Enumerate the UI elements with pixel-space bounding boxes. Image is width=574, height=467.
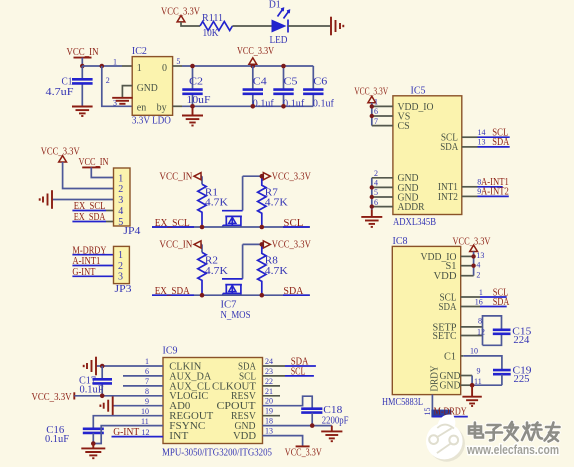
- wire IC5 ground pins: [371, 178, 373, 210]
- svg-text:GND: GND: [137, 83, 158, 94]
- svg-text:VCC_3.3V: VCC_3.3V: [453, 236, 492, 247]
- wire D1 cathode to ground: [288, 25, 330, 27]
- svg-text:4.7K: 4.7K: [265, 198, 289, 209]
- svg-text:1: 1: [118, 250, 123, 261]
- svg-text:225: 225: [514, 374, 530, 385]
- capacitor C15: [493, 330, 511, 334]
- wire G-INT to pin 12: [112, 436, 164, 438]
- node C18 / GND: [310, 423, 315, 428]
- IC9 pin 6 wire (AUX_DA): [123, 375, 163, 377]
- IC9 pin 13 wire (VDD): [263, 436, 303, 446]
- svg-text:SDA: SDA: [492, 137, 510, 148]
- svg-text:MPU-3050/ITG3200/ITG3205: MPU-3050/ITG3200/ITG3205: [162, 448, 272, 459]
- svg-text:23: 23: [265, 367, 273, 376]
- wire from VCC_3.3V to R111: [181, 22, 200, 26]
- svg-text:2: 2: [106, 76, 110, 85]
- svg-text:4.7uF: 4.7uF: [46, 87, 75, 98]
- svg-text:en: en: [137, 103, 146, 114]
- svg-text:0.1uF: 0.1uF: [80, 384, 104, 395]
- IC9 pin 18 wire (GND): [263, 425, 332, 427]
- svg-text:4.7K: 4.7K: [265, 266, 289, 277]
- svg-text:SCL: SCL: [283, 218, 303, 229]
- svg-text:1: 1: [479, 288, 483, 297]
- svg-text:DRDY: DRDY: [430, 366, 441, 392]
- svg-text:JP4: JP4: [123, 226, 140, 237]
- svg-text:LED: LED: [270, 35, 288, 46]
- svg-text:1: 1: [118, 173, 123, 184]
- svg-text:9: 9: [477, 367, 481, 376]
- svg-text:D1: D1: [269, 0, 281, 10]
- node C5 bottom: [281, 104, 286, 109]
- svg-text:HMC5883L: HMC5883L: [382, 397, 423, 408]
- svg-text:1: 1: [145, 357, 149, 366]
- svg-text:2: 2: [118, 184, 123, 195]
- svg-text:6: 6: [145, 367, 149, 376]
- IC8 pin 1 wire (SCL): [461, 296, 480, 298]
- ground (IC5): [361, 210, 382, 227]
- node ADDR: [370, 204, 374, 208]
- ground (LED, sideways right): [331, 17, 343, 36]
- svg-text:VDD: VDD: [233, 431, 256, 442]
- svg-text:20: 20: [265, 397, 273, 406]
- svg-text:4.7K: 4.7K: [205, 266, 229, 277]
- svg-text:by: by: [157, 103, 167, 114]
- wire VCC_3.3V to VLOGIC pin 8: [74, 395, 163, 397]
- LED D1: [272, 8, 290, 32]
- watermark logo (elecfans): [426, 414, 465, 461]
- IC8 pin 10 wire (C1): [461, 355, 464, 357]
- IC9 pin 9 wire (AD0): [113, 405, 163, 407]
- IC9 pin 20 wire (CPOUT) to C18: [263, 396, 313, 408]
- svg-text:12: 12: [477, 327, 485, 336]
- IC9 pin 10 wire (REGOUT): [93, 416, 163, 429]
- capacitor C2: [182, 66, 202, 106]
- svg-text:15: 15: [423, 408, 432, 416]
- wire VCC_IN node to IC2 pin 1: [82, 65, 122, 67]
- svg-text:18: 18: [265, 417, 273, 426]
- IC9 pin 7 wire (AUX_CL): [123, 385, 163, 387]
- ground (CLKIN, sideways left): [84, 357, 96, 376]
- svg-text:SDA: SDA: [283, 286, 304, 297]
- svg-text:VCC_3.3V: VCC_3.3V: [41, 146, 81, 157]
- capacitor C19: [493, 370, 511, 374]
- IC9 pin 11 wire (FSYNC): [93, 426, 163, 444]
- wire EX_SDA to JP4 pin 5: [72, 221, 106, 223]
- IC5 pin 9 wire (INT2): [462, 195, 478, 197]
- node VS: [370, 114, 374, 118]
- IC8 pin 12 stub (SETC): [461, 335, 483, 337]
- svg-text:ADDR: ADDR: [398, 202, 425, 213]
- svg-text:C5: C5: [284, 77, 298, 88]
- svg-text:4: 4: [374, 179, 378, 188]
- IC8 pin 15 stub: [431, 395, 433, 417]
- wire EX_SCL to JP4 pin 4: [72, 210, 106, 212]
- node GND pin5: [370, 195, 374, 199]
- IC9 pin 19 stub: [263, 415, 281, 417]
- IC9 pin 23 wire (SCL): [263, 375, 286, 377]
- IC5 pin 6 stub (VS): [372, 115, 393, 117]
- svg-text:0.1uF: 0.1uF: [45, 434, 69, 445]
- capacitor C6: [303, 66, 323, 106]
- IC8 pin 4 stub (S1): [461, 265, 474, 267]
- node CLKIN / C17: [100, 364, 105, 369]
- svg-text:13: 13: [476, 251, 484, 260]
- power flag VCC_3.3V (IC9 VDD): [296, 445, 310, 447]
- svg-text:2: 2: [476, 271, 480, 280]
- svg-text:1: 1: [113, 58, 117, 67]
- IC2 pin 5 stub: [173, 65, 182, 67]
- level shifter SCL: R1, R7, NMOS; wires and power flags: [152, 173, 310, 230]
- svg-text:INT2: INT2: [438, 192, 458, 203]
- node VLOGIC / C17 bottom: [100, 394, 105, 399]
- svg-text:0.1uf: 0.1uf: [283, 98, 305, 109]
- svg-text:10uF: 10uF: [187, 95, 212, 106]
- svg-text:VCC_3.3V: VCC_3.3V: [272, 240, 312, 251]
- ground (below C2): [182, 108, 203, 125]
- connector JP3 body: [114, 246, 130, 283]
- IC9 pin 21 stub: [263, 395, 281, 397]
- svg-text:SDA: SDA: [493, 297, 510, 308]
- svg-text:10: 10: [141, 407, 149, 416]
- capacitor C5: [273, 66, 293, 106]
- svg-text:224: 224: [513, 335, 529, 346]
- svg-text:C2: C2: [189, 77, 203, 88]
- accelerometer IC5 (ADXL345B) body: [393, 96, 462, 215]
- svg-text:IC9: IC9: [163, 346, 178, 357]
- op-amp regulator IC2 (3.3V LDO) body: [132, 57, 172, 116]
- svg-text:13: 13: [478, 138, 486, 147]
- level shifter SDA: R2, R8, NMOS IC7; wires and power flags: [152, 241, 310, 298]
- svg-text:4: 4: [118, 206, 123, 217]
- gyroscope IC9 (MPU-3050) body: [163, 358, 263, 444]
- svg-text:2: 2: [374, 169, 378, 178]
- svg-text:11: 11: [141, 417, 149, 426]
- IC9 pin 24 wire (SDA): [263, 365, 286, 367]
- IC8 pin 11 stub: [461, 384, 472, 386]
- wire G-INT to JP3 pin 3: [72, 275, 113, 277]
- svg-text:C1: C1: [444, 351, 456, 362]
- svg-text:VCC_3.3V: VCC_3.3V: [285, 447, 323, 458]
- node GND pin4: [370, 185, 374, 189]
- IC2 pin 2 stub: [122, 86, 132, 98]
- svg-text:12: 12: [142, 428, 150, 437]
- svg-text:VCC_IN: VCC_IN: [67, 47, 99, 58]
- IC8 pin 2 stub (VDD): [461, 275, 474, 277]
- svg-text:R111: R111: [202, 13, 223, 24]
- ground (IC9 pin 18): [321, 426, 342, 442]
- IC5 pin 13 wire (SDA): [462, 146, 478, 148]
- svg-text:0.1uf: 0.1uf: [313, 98, 335, 109]
- svg-text:EX_SCL: EX_SCL: [155, 218, 190, 229]
- svg-text:1: 1: [374, 98, 378, 107]
- svg-text:8: 8: [478, 317, 482, 326]
- IC9 pin 22 stub: [263, 385, 281, 387]
- svg-text:6: 6: [374, 107, 378, 116]
- svg-text:13: 13: [265, 427, 273, 436]
- node VDD_IO IC8: [471, 254, 475, 258]
- wire A-INT1 to JP3 pin 2: [72, 265, 113, 267]
- capacitor C1: [81, 66, 83, 106]
- wire VCC_IN to JP4 pin 1: [91, 167, 113, 177]
- svg-text:CS: CS: [398, 121, 410, 132]
- capacitor C16: [83, 429, 104, 433]
- svg-text:6: 6: [374, 198, 378, 207]
- svg-text:VCC_IN: VCC_IN: [159, 171, 192, 182]
- wire VCC_3.3V to IC5 power pins: [371, 103, 373, 126]
- wire VCC_3.3V to JP4 pin 2: [63, 162, 114, 189]
- wire R111 to D1: [232, 25, 271, 27]
- svg-text:EX_SDA: EX_SDA: [155, 286, 191, 297]
- svg-text:IC8: IC8: [393, 236, 408, 247]
- svg-text:SDA: SDA: [440, 142, 459, 153]
- svg-text:VCC_3.3V: VCC_3.3V: [272, 171, 312, 182]
- IC5 pin 1 stub (VDD_IO): [372, 105, 393, 107]
- capacitor C4: [243, 66, 263, 106]
- ground (IC8): [462, 385, 481, 406]
- svg-text:7: 7: [374, 117, 378, 126]
- IC2 pin by stub: [173, 105, 182, 107]
- svg-text:www.elecfans.com: www.elecfans.com: [466, 442, 559, 457]
- wire C19 bottom to ground: [472, 384, 502, 386]
- node C16 / FSYNC ground: [91, 441, 96, 446]
- svg-text:IC7: IC7: [221, 300, 237, 311]
- svg-text:C6: C6: [313, 77, 327, 88]
- highlight box behind M-DRDY: [431, 410, 451, 418]
- svg-text:10K: 10K: [203, 28, 220, 39]
- svg-text:A-INT2: A-INT2: [481, 187, 509, 198]
- svg-text:0.1uf: 0.1uf: [253, 98, 275, 109]
- node S1: [471, 264, 475, 268]
- IC5 pin 7 stub (CS): [372, 125, 393, 127]
- svg-text:3: 3: [113, 98, 117, 107]
- resistor R111: [200, 22, 232, 31]
- capacitor C17: [101, 366, 103, 396]
- svg-text:3.3V LDO: 3.3V LDO: [132, 115, 171, 126]
- IC5 pin 5 stub (GND): [372, 196, 393, 198]
- svg-text:N_MOS: N_MOS: [221, 310, 251, 321]
- svg-text:GND: GND: [440, 381, 461, 392]
- IC8 pin 9 stub: [461, 375, 472, 377]
- svg-text:8: 8: [145, 387, 149, 396]
- node VCC_IN / C1: [80, 64, 85, 69]
- svg-text:9: 9: [145, 397, 149, 406]
- node en branch: [100, 64, 105, 69]
- svg-text:VCC_IN: VCC_IN: [159, 240, 192, 251]
- svg-text:VDD: VDD: [434, 271, 457, 282]
- svg-text:0: 0: [162, 63, 167, 74]
- node C2 top: [190, 64, 195, 69]
- wire pin 9 down to gnd rail: [471, 376, 473, 386]
- svg-text:19: 19: [265, 407, 273, 416]
- svg-text:C4: C4: [253, 77, 267, 88]
- svg-text:SETC: SETC: [433, 331, 457, 342]
- wire C15 loop: [483, 316, 502, 345]
- watermark text (Chinese glyphs, drawn): [469, 422, 560, 442]
- IC8 pin 16 wire (SDA): [461, 306, 480, 308]
- ground (C16): [81, 444, 105, 459]
- svg-text:JP3: JP3: [115, 284, 132, 295]
- wire M-DRDY: [432, 416, 467, 418]
- svg-text:22: 22: [265, 377, 273, 386]
- svg-text:SDA: SDA: [439, 302, 458, 313]
- magnetometer IC8 (HMC5883L) body: [392, 246, 460, 394]
- node C2 bottom: [190, 104, 195, 109]
- svg-text:VCC_3.3V: VCC_3.3V: [32, 392, 73, 403]
- svg-text:10: 10: [470, 347, 478, 356]
- wire 3.3V output rail (top): [182, 65, 313, 67]
- svg-text:16: 16: [475, 297, 483, 306]
- svg-text:IC2: IC2: [132, 46, 147, 57]
- svg-text:1: 1: [137, 63, 142, 74]
- svg-text:7: 7: [145, 377, 149, 386]
- svg-text:14: 14: [478, 128, 486, 137]
- wire capacitor bottom rail: [182, 105, 313, 107]
- svg-text:IC5: IC5: [411, 86, 426, 97]
- IC8 pin 13 stub (VDD_IO): [461, 255, 474, 257]
- IC9 pin 1 wire (CLKIN): [96, 365, 163, 367]
- svg-text:5: 5: [374, 188, 378, 197]
- svg-text:ADXL345B: ADXL345B: [393, 217, 436, 228]
- ground (AD0, sideways left): [100, 396, 112, 415]
- capacitor C18: [301, 409, 322, 413]
- svg-text:4: 4: [476, 261, 480, 270]
- wire M-DRDY to JP3 pin 1: [72, 254, 113, 256]
- svg-text:5: 5: [176, 57, 180, 66]
- ground (below C1): [72, 107, 93, 117]
- wire JP4 pin 3 to ground: [53, 199, 114, 201]
- node VCC_3.3V / C4: [251, 64, 256, 69]
- IC5 pin 14 wire (SCL): [462, 136, 478, 138]
- connector JP4 body: [114, 168, 131, 226]
- wire branch to IC2 pin 3 (en): [102, 66, 132, 106]
- svg-text:21: 21: [265, 387, 273, 396]
- svg-text:INT: INT: [169, 431, 188, 442]
- svg-text:3: 3: [118, 195, 123, 206]
- svg-text:24: 24: [265, 357, 273, 366]
- wire VCC_3.3V to IC8 power pins: [473, 252, 475, 276]
- node VDD_IO: [370, 104, 374, 108]
- IC5 pin 2 stub (GND): [372, 177, 393, 179]
- IC5 pin 4 stub (GND): [372, 186, 393, 188]
- node C5 top: [281, 64, 286, 69]
- IC5 pin 8 wire (INT1): [462, 186, 478, 188]
- svg-text:SCL: SCL: [291, 367, 306, 378]
- IC5 ADDR pin stub: [372, 206, 393, 208]
- ground (IC2 pin 2): [112, 98, 132, 104]
- ground (JP4 pin 3, sideways left): [40, 190, 52, 209]
- IC8 pin 8 stub (SETP): [461, 326, 483, 328]
- svg-text:VCC_3.3V: VCC_3.3V: [237, 46, 275, 57]
- node IC8 ground: [470, 383, 475, 388]
- node C4 bottom: [251, 104, 256, 109]
- svg-text:2: 2: [118, 261, 123, 272]
- svg-text:4.7K: 4.7K: [205, 198, 229, 209]
- svg-text:3: 3: [118, 272, 123, 283]
